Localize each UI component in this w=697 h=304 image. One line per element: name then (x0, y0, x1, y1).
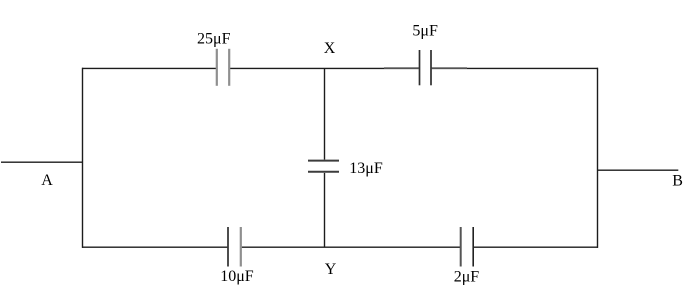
svg-text:5μF: 5μF (412, 23, 438, 40)
svg-text:2μF: 2μF (454, 268, 480, 285)
svg-text:Y: Y (325, 261, 337, 278)
svg-text:X: X (324, 40, 336, 57)
svg-text:13μF: 13μF (349, 160, 383, 177)
svg-text:10μF: 10μF (220, 268, 254, 285)
svg-text:25μF: 25μF (197, 31, 231, 48)
svg-text:A: A (41, 172, 53, 189)
svg-text:B: B (672, 173, 683, 190)
